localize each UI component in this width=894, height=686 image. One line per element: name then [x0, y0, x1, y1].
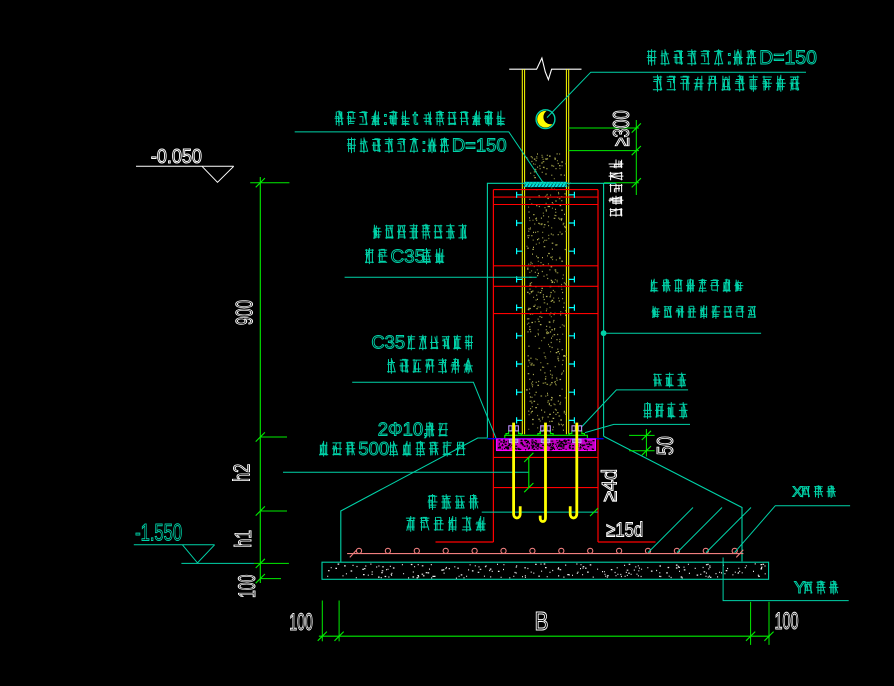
- steel column right wall: [565, 69, 567, 434]
- dim >=300 and column section height: [569, 127, 639, 129]
- dim 50 grout thickness: [629, 434, 655, 436]
- leader: double nut note: [582, 390, 689, 427]
- svg-text:100: 100: [234, 575, 261, 598]
- svg-text:-0.050: -0.050: [151, 146, 202, 168]
- leader Y-direction bars: [723, 558, 849, 601]
- svg-text:50: 50: [652, 436, 678, 455]
- svg-text:t: t: [413, 107, 418, 128]
- svg-text:≥15d: ≥15d: [606, 520, 643, 542]
- note: see encased foundation short-column detail: [650, 279, 658, 293]
- leader: C35 cavity fill note: [345, 276, 537, 278]
- leader: pouring hole to top-right note: [547, 72, 806, 117]
- concrete pouring hole circle: [537, 111, 554, 128]
- anchor bolt 3 (J-hook): [570, 423, 577, 518]
- foundation right slope: [604, 436, 742, 561]
- note: double nut: [653, 373, 662, 386]
- svg-text:Y: Y: [794, 579, 805, 597]
- footing slab outline: [322, 562, 769, 579]
- leveling nuts (green hat profiles): [506, 431, 521, 435]
- dim: tie spacing between stirrups: [528, 457, 530, 487]
- concrete infill speckles inside column: [526, 154, 567, 432]
- svg-text:≥300: ≥300: [608, 110, 634, 146]
- dim text 900: [232, 300, 259, 325]
- svg-text:500: 500: [358, 438, 389, 459]
- outer encasement outline (teal): [487, 183, 615, 437]
- Y-direction bar section circles: [356, 548, 361, 553]
- note: corner main bars into base slab: [428, 494, 438, 510]
- svg-text:D=150: D=150: [452, 134, 507, 155]
- leader: leveling nut note: [585, 424, 690, 432]
- note: fill C35 plain concrete: [373, 225, 382, 239]
- elevation marker -0.050: [136, 165, 234, 167]
- left dimension chain vertical: [259, 177, 261, 583]
- dim text 100 (slab): [234, 575, 261, 598]
- svg-text:-1.550: -1.550: [135, 520, 182, 547]
- slab concrete speckles: [327, 564, 766, 578]
- X-direction rebar hatch + leader: [648, 508, 693, 553]
- extension lines: [321, 601, 323, 642]
- note: leveling nut: [643, 402, 652, 419]
- blue datum line at plate underside: [487, 438, 603, 440]
- column break cut line: [509, 58, 581, 80]
- anchor bolt 2 (middle): [540, 423, 545, 522]
- svg-text:D=150: D=150: [759, 47, 817, 69]
- base plate (green): [505, 435, 588, 438]
- main bar bottom hook left >=15d: [436, 541, 494, 543]
- level line slab top (green part): [254, 562, 289, 564]
- shear studs on column walls: [517, 192, 575, 424]
- leader: corner main bars note: [482, 511, 598, 513]
- svg-text:900: 900: [232, 300, 259, 325]
- svg-text::: :: [727, 47, 732, 69]
- leader: 2-phi-10 ties note: [283, 471, 529, 473]
- steel column left wall: [521, 69, 523, 434]
- double nuts (violet): [509, 426, 519, 431]
- note: rib plate thickness t: [335, 111, 344, 127]
- grout layer (magenta hatched): [497, 439, 596, 451]
- leader: C35 grout note: [352, 382, 496, 438]
- svg-text::: :: [421, 134, 426, 155]
- stirrups (red horizontal): [493, 196, 598, 198]
- svg-text:B: B: [535, 606, 549, 636]
- svg-text:C35: C35: [391, 246, 426, 267]
- level stub h1 top: [260, 510, 287, 512]
- level stub h2 top: [260, 436, 287, 438]
- svg-text:100: 100: [289, 609, 313, 636]
- svg-text:h2: h2: [229, 464, 255, 482]
- svg-text:X: X: [792, 484, 802, 501]
- rebar cage (red) top edge: [493, 189, 598, 191]
- dim text column-section-height: [609, 160, 624, 217]
- svg-text::: :: [383, 107, 388, 128]
- note: concrete pouring hole D=150 (top right): [647, 49, 657, 66]
- level stub slab bottom: [260, 578, 281, 580]
- stiffening rib plate (cyan hatched): [524, 182, 566, 187]
- bottom dimension line: [319, 635, 770, 637]
- svg-text:C35: C35: [371, 332, 405, 353]
- foundation left slope: [341, 438, 488, 562]
- rebar cage right vertical bar: [597, 190, 599, 542]
- svg-text:h1: h1: [230, 530, 256, 548]
- anchor bolt embedded nuts (violet, in grout): [509, 439, 517, 442]
- note: pouring hole D=150 (left): [347, 138, 356, 154]
- rebar end hook right: [736, 550, 743, 558]
- note: seal weld after pouring: [653, 75, 662, 92]
- rebar end hook left: [350, 550, 357, 558]
- rebar cage left vertical bar: [492, 190, 494, 542]
- svg-text:100: 100: [775, 608, 799, 635]
- dim text h2: [229, 464, 255, 482]
- svg-text:≥4d: ≥4d: [598, 469, 621, 502]
- leader: rebar detail note (right): [601, 330, 607, 336]
- leader: rib plate note (upper left): [295, 132, 544, 183]
- dim text h1: [230, 530, 256, 548]
- elevation marker -1.550: [134, 544, 215, 546]
- dim text >=4d (rotated): [598, 469, 621, 502]
- anchor bolt 1 (J-hook): [514, 423, 521, 518]
- main bar bottom hook right >=15d: [598, 541, 656, 543]
- svg-text:2Φ10,: 2Φ10,: [378, 419, 428, 440]
- dim text >=300: [608, 110, 634, 146]
- level stub -0.050: [250, 182, 289, 184]
- bottom rebar line (salmon): [347, 553, 743, 555]
